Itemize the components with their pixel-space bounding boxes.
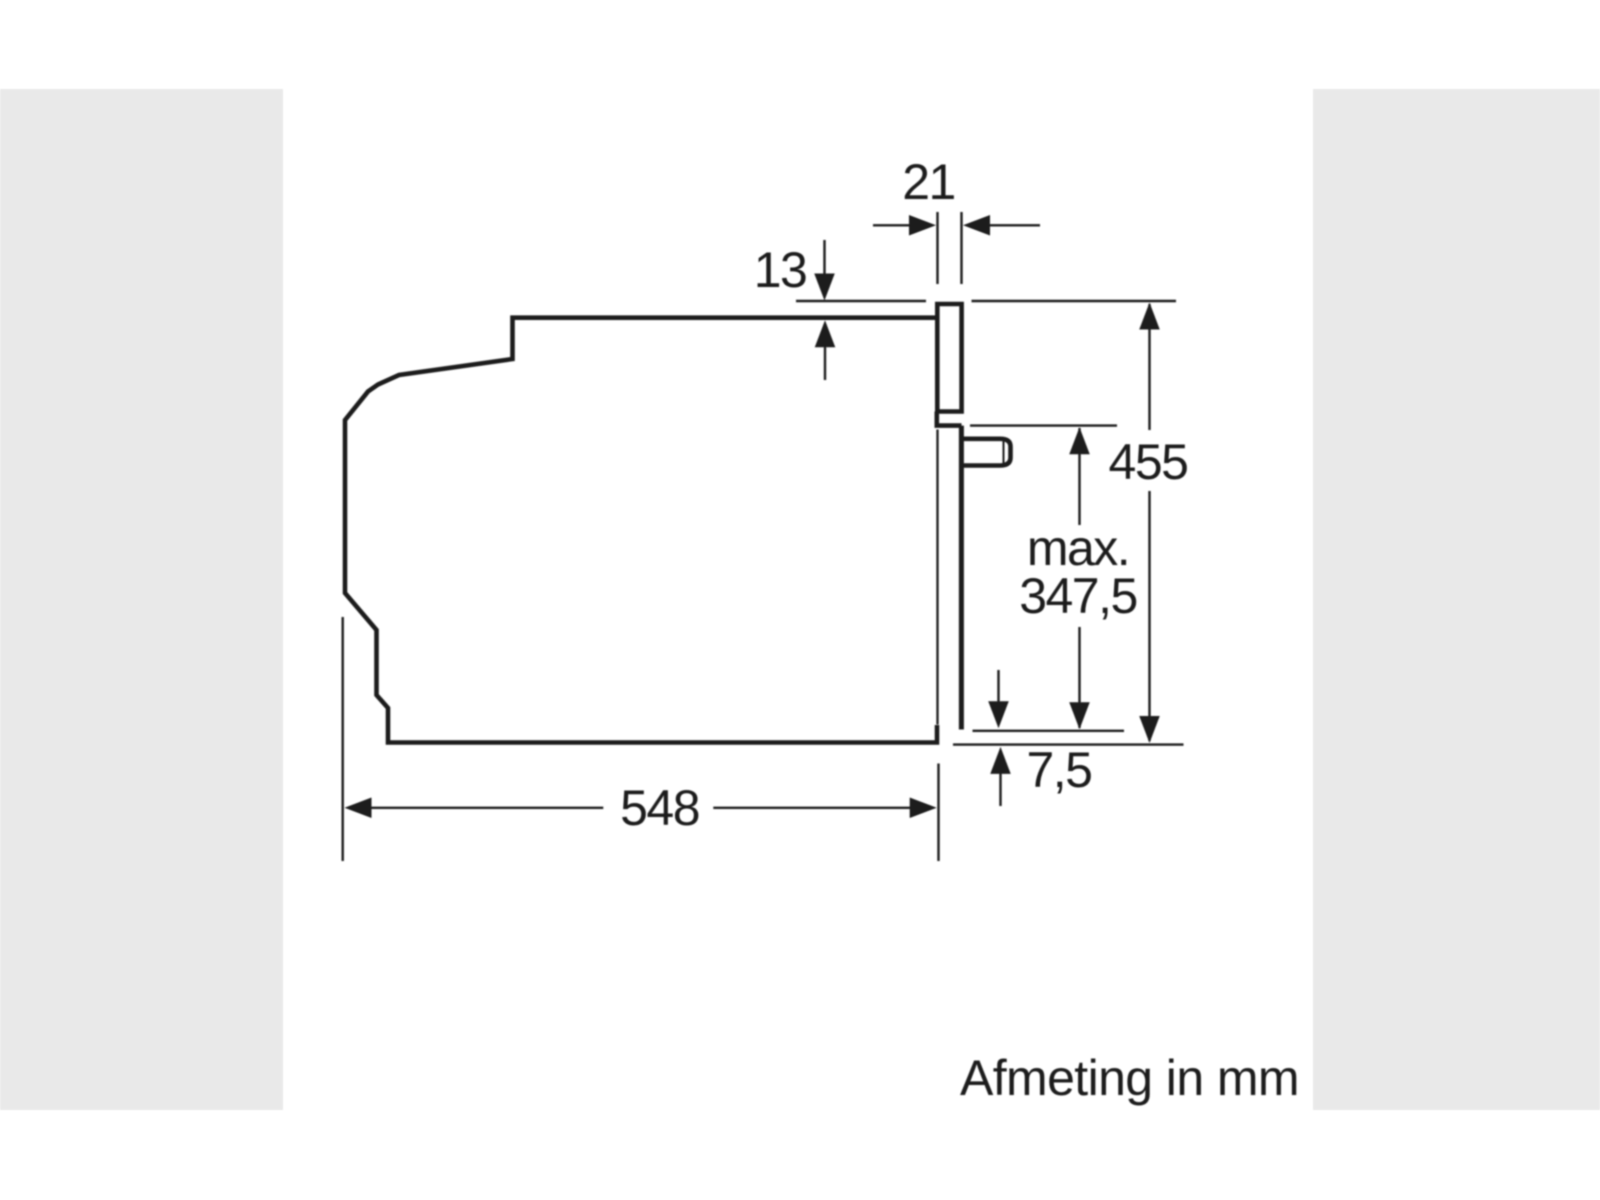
svg-text:455: 455 bbox=[1109, 434, 1188, 490]
svg-text:548: 548 bbox=[620, 780, 699, 836]
svg-text:347,5: 347,5 bbox=[1019, 568, 1137, 624]
svg-text:13: 13 bbox=[754, 242, 807, 298]
svg-text:Afmeting in mm: Afmeting in mm bbox=[960, 1050, 1299, 1106]
svg-text:21: 21 bbox=[902, 154, 955, 210]
svg-text:7,5: 7,5 bbox=[1026, 742, 1091, 798]
